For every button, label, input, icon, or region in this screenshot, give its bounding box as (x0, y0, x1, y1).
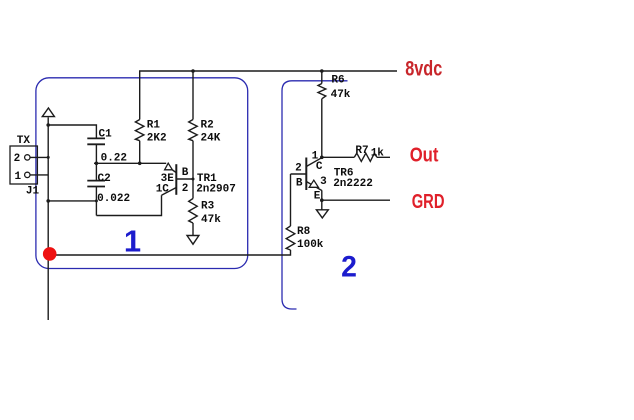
svg-text:TX: TX (17, 135, 31, 147)
svg-text:2: 2 (14, 153, 21, 165)
svg-text:Out: Out (410, 145, 439, 167)
svg-text:2n2222: 2n2222 (333, 178, 373, 190)
svg-text:R2: R2 (201, 120, 214, 132)
svg-text:47k: 47k (331, 89, 351, 101)
svg-text:R1: R1 (147, 120, 161, 132)
svg-text:2: 2 (341, 251, 357, 284)
svg-text:1C: 1C (156, 184, 170, 196)
svg-text:2: 2 (182, 183, 189, 195)
svg-text:1: 1 (124, 223, 141, 258)
svg-text:1: 1 (15, 171, 22, 183)
svg-text:GRD: GRD (412, 191, 445, 213)
svg-text:100k: 100k (297, 239, 324, 251)
svg-text:R8: R8 (297, 226, 311, 238)
svg-text:B: B (182, 167, 189, 179)
svg-text:0.22: 0.22 (101, 152, 127, 164)
svg-text:B: B (296, 178, 303, 190)
svg-text:1k: 1k (371, 147, 385, 159)
svg-text:R6: R6 (331, 75, 344, 87)
svg-text:J1: J1 (26, 186, 40, 198)
svg-text:C2: C2 (98, 173, 111, 185)
svg-text:R7: R7 (355, 145, 368, 157)
svg-text:R3: R3 (201, 201, 215, 213)
svg-text:0.022: 0.022 (97, 193, 130, 205)
svg-text:47k: 47k (201, 214, 221, 226)
svg-text:2n2907: 2n2907 (196, 184, 236, 196)
svg-text:24K: 24K (201, 132, 221, 144)
svg-text:3: 3 (320, 176, 327, 188)
svg-text:C: C (316, 161, 323, 173)
svg-text:E: E (314, 190, 321, 202)
svg-text:2: 2 (295, 163, 302, 175)
svg-text:C1: C1 (99, 129, 113, 141)
svg-text:8vdc: 8vdc (405, 57, 442, 81)
svg-text:2K2: 2K2 (147, 132, 167, 144)
